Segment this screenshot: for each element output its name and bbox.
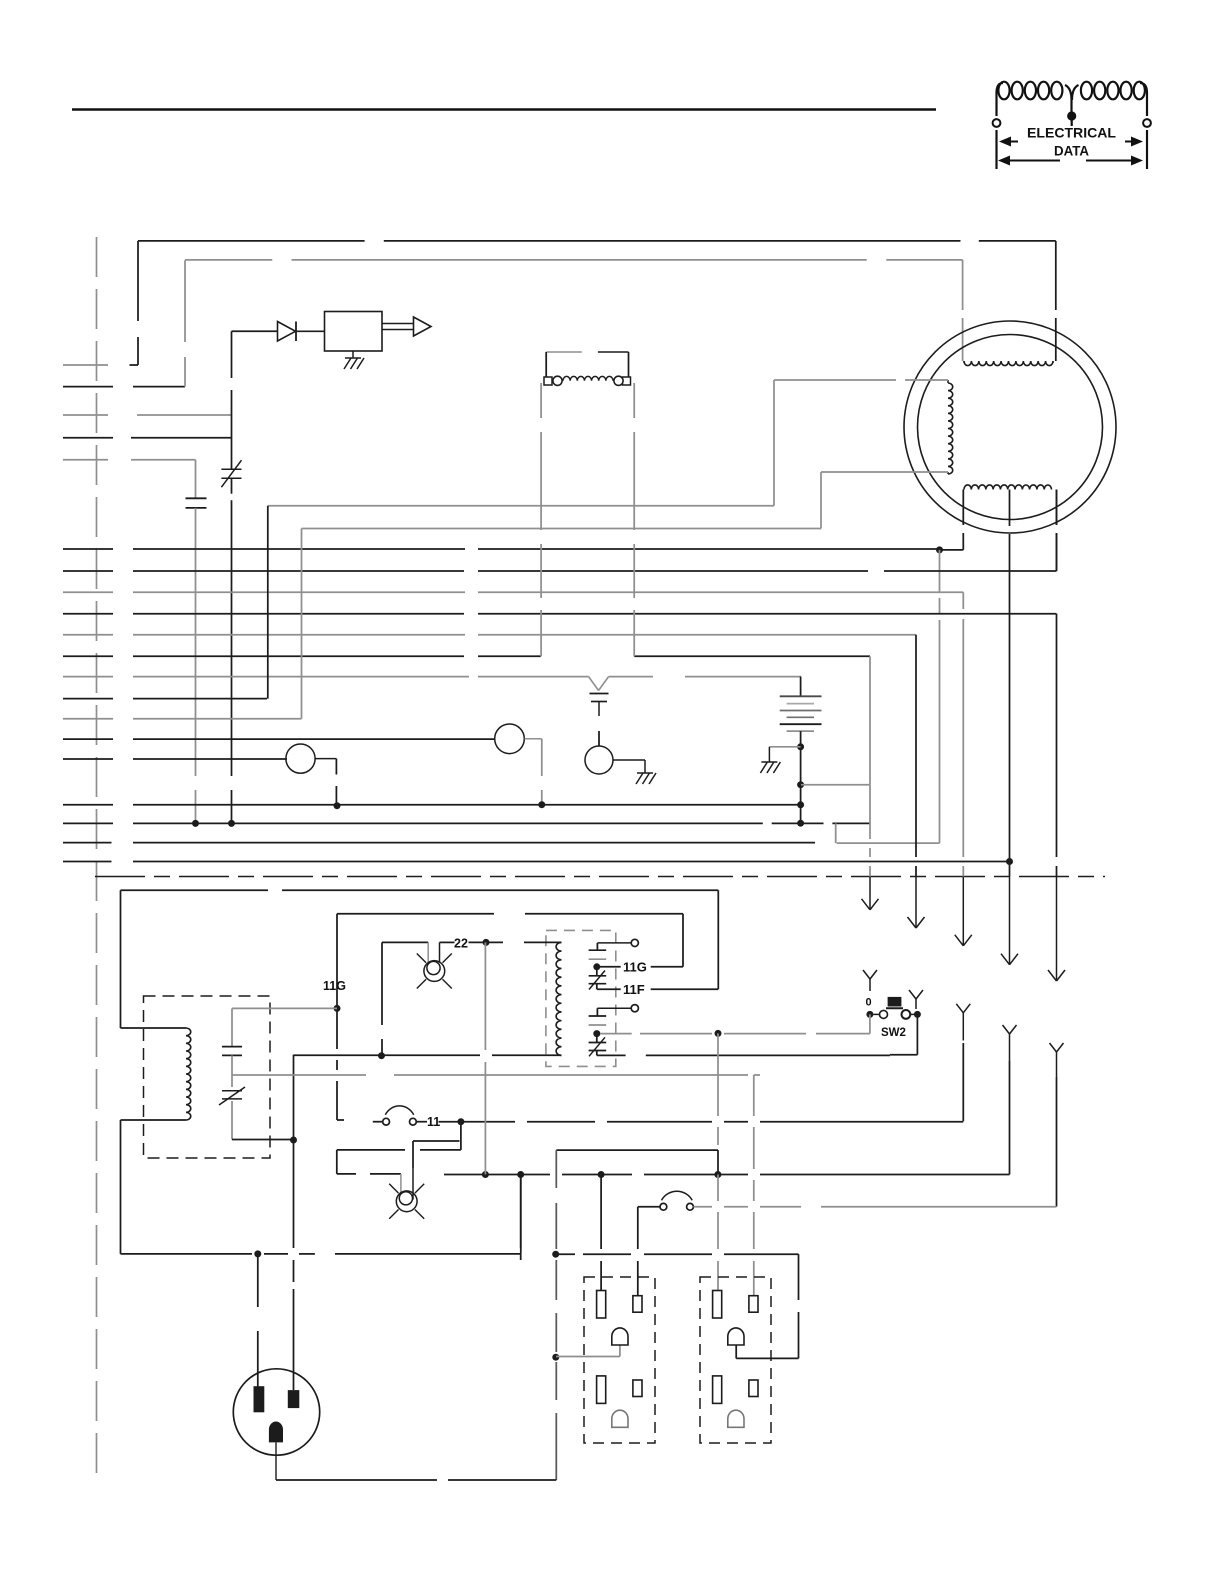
jog 461-337 [337,1122,461,1174]
capacitor C1 [186,460,207,508]
label 11 [427,1115,440,1129]
junction dot 231/823 [228,820,235,827]
wire y459.8 [131,459,196,461]
col4 connector socket Y [1003,1025,1017,1061]
capacitor C2 [222,1008,242,1055]
col3 feed x963.3 [962,592,964,876]
wire pin B to x337 [315,759,336,806]
ground at pin C [636,773,656,784]
col5 connector arrow [1048,877,1065,982]
bus wire y676.6 with probe dip [133,677,801,691]
bus stub y842.6 [63,842,112,844]
wire stub y459.8 [63,459,108,461]
col4 connector arrow [1001,877,1018,965]
bus wire y549 [133,548,963,551]
bus wire y823.4 [133,822,870,824]
gen left coil top lead y380 [774,380,948,383]
SW2 left wire to relay [869,1014,871,1033]
col3 wire to switch 11 line [962,1043,964,1121]
bus wire y861.5 [133,861,1010,863]
bus stub y823.4 [63,822,113,824]
gen top winding [964,361,1053,366]
vertical 11G x683 [682,914,684,967]
col4 feed x1009.5 [1009,858,1011,877]
wire 11 to dot [439,1121,461,1123]
junction dot 293/1140 [290,1137,297,1144]
11G wire y1008.4 [232,1007,337,1009]
pin circle C [585,746,613,774]
junction dot 258/1254 [254,1250,261,1257]
variable marker on C2 branch [219,1055,245,1139]
output arrow [382,317,431,336]
bus wire y592.3 [133,591,963,593]
svg-text:11G: 11G [623,960,647,975]
junction dot K2 out [593,1030,600,1037]
svg-text:11G: 11G [323,979,346,993]
branch to lamp right lead [413,1141,460,1168]
label 11F [623,982,645,997]
junction dot 486/942 [483,939,490,946]
junction dot 196/823 [192,820,199,827]
junction dot 556/1357 [552,1354,559,1361]
wire y1174 main [444,1174,1010,1176]
lamp L2 leads [401,1168,413,1200]
vertical 11F x718.3 [717,890,719,989]
bus stub y739.1 [63,738,113,740]
gen left (excitation) winding [948,383,953,474]
bus stub y634.8 [63,634,113,636]
lamp 22 leads [428,942,439,962]
wire 11F out [597,988,719,990]
plug ground pin [269,1422,283,1443]
wire battery to col1 y784.7 [801,784,870,786]
vertical x485.4 [484,942,486,1174]
plug circle [233,1369,319,1455]
SW2 right contact [902,1010,915,1019]
junction dot 520/1174 [517,1171,524,1178]
col5 connector socket Y [1050,1043,1064,1077]
col1 connector socket Y [863,970,877,991]
bus stub y804.8 [63,804,113,806]
vertical wire x138 [137,241,139,365]
bus wire y698.6 [133,698,267,700]
ELECTRICAL DATA coil badge [993,82,1151,169]
svg-text:11: 11 [427,1115,440,1129]
junction dot 1010/861 [1006,858,1013,865]
junction dot 718/1174 [714,1171,721,1178]
ignition module box [325,312,383,352]
label SW2 [881,1027,906,1039]
bus wire y656.3 [133,655,870,657]
svg-text:22: 22 [454,937,468,951]
vertical x601.1 to receptacle1 [600,1175,602,1291]
transformer T1 primary coil [186,1028,191,1120]
svg-text:SW2: SW2 [881,1027,906,1039]
plug right blade [288,1390,300,1408]
lamp L2 [389,1184,424,1219]
gen bottom coil right lead [1056,490,1058,572]
lamp 22 [417,954,452,989]
transformer dashed box [144,996,271,1158]
bus wire y571 [133,570,1057,572]
pin circle A [495,724,525,754]
wire y942.4 (coil top feed) [382,941,562,943]
wire y1150.1 [556,1150,718,1174]
bus stub y549 [63,548,113,550]
col1 connector arrow [862,877,879,910]
bus wire y718.7 [133,718,302,720]
col2 connector socket Y [909,990,923,1009]
bottom ground bus y1480 [276,1479,556,1481]
bus wire y634.8 [133,634,916,636]
label 11G right [623,960,647,975]
relay K2 coil [556,942,561,1055]
section divider dash-dot [95,876,1105,878]
wire y1055.2 left [294,1054,562,1056]
svg-text:ELECTRICAL: ELECTRICAL [1027,125,1116,141]
staircase x821 [820,472,822,529]
wire stub y415 [63,414,108,416]
wire y365 to corner x138 [130,364,139,366]
plug left blade [254,1386,265,1412]
col3 connector arrow [955,877,972,946]
bottom switch contacts [660,1191,693,1210]
vertical x293.5 up [293,1055,295,1140]
plug ground wire [275,1442,277,1480]
wire stub y386.6 [63,386,113,388]
battery ground wire [769,747,800,762]
receptacle R2 duplex [700,1277,771,1443]
gray vertical x556.3 [555,1150,557,1480]
wire pin A to x541.8 [525,739,542,805]
wire recep1 ground [556,1345,620,1357]
gen bottom winding [964,485,1052,490]
contact stack 2 lead [597,1005,638,1016]
switch 11 contacts [383,1106,417,1125]
battery BAT1 [780,677,822,824]
contact stack 2 lower plates [589,1034,607,1057]
plug lead left blade [257,1254,259,1388]
wire y331.3 to diode [232,330,278,332]
bracket x382 [381,942,383,1055]
wire y1174 left segment [337,1173,401,1175]
wire K2 out to SW2 [600,1033,870,1035]
junction dot 461/1121 [457,1118,464,1125]
bus wire y613.8 [133,613,1057,615]
staircase vertical x267.8 [267,506,269,699]
staircase x774 [773,380,775,506]
bus wire B y259.9 [185,259,963,261]
receptacle R1 duplex [584,1277,655,1443]
battery ground [760,762,780,773]
contact stack 1 plates [589,950,607,959]
wire pin C to ground [613,760,646,773]
wire x337 corner to switch [337,1119,344,1121]
col3 connector socket Y [956,1004,970,1041]
wire y1121.7 to col3 [461,1121,963,1123]
col4 wire to y1174 [1009,1061,1011,1175]
pin circle B [286,744,315,773]
bus stub y676.6 [63,676,113,678]
bus stub y861.5 [63,861,112,863]
junction dot 542/805 [538,801,545,808]
col2 connector arrow [908,877,925,929]
vertical x293.5 down to plug [293,1140,295,1390]
capacitor lead x195.5 down [195,508,197,824]
wire stub y437.8 [63,437,113,439]
bus stub y698.6 [63,698,113,700]
bus wire A y240.9 [138,240,1056,242]
contact stack 2 plates [589,1016,607,1025]
SW2 button [886,997,903,1008]
bottom switch right wire y1206.8 [694,1206,1057,1208]
vertical 11G x337 [336,914,338,1120]
label 11G left [323,979,346,993]
staircase y505.7 [268,505,774,507]
wire stub y365 [63,364,108,366]
boundary wire y890.3 (11F net) [121,889,719,891]
bus wire y739.1 [133,738,495,740]
SW2 right terminal dot [914,1011,921,1018]
junction dot 556/1254 [552,1251,559,1258]
vertical wire x185 [184,260,186,386]
col2 feed x916 [915,635,917,877]
wire recep2 ground y1358.4 [736,1345,798,1358]
vertical wire x231.5 (ignition feed) [231,331,233,823]
bus wire y804.8 [133,804,801,806]
crossed-wire marker on x231.5 [221,460,241,487]
bus wire y759 [133,758,287,760]
junction dot 601/1174 [598,1171,605,1178]
wire 11G out [600,966,683,968]
vertical x939.5 jog [939,550,941,843]
bus stub y592.3 [63,591,113,593]
switch 11 leads [373,1121,427,1123]
vertical x520.7 [520,1175,522,1261]
bus stub y571 [63,570,113,572]
wire y1253.9 [121,1253,521,1255]
vertical x1056.5 to gen coil [1056,490,1058,572]
ground under module [344,351,364,369]
page top rule [72,108,936,111]
wire y1139.5 [232,1139,294,1141]
relay K1 coil with terminals [544,352,631,385]
col1 feed x870 [869,656,871,876]
junction dot 718/1033 [715,1030,722,1037]
junction dot 337/805 [334,802,341,809]
bus stub y656.3 [63,655,113,657]
vertical x520.8 up [520,1175,522,1254]
probe lead to pin [598,731,600,747]
contact stack 1 lower plates [589,967,607,990]
bus stub y718.7 [63,718,113,720]
col5 feed x1056.5 [1056,614,1058,877]
gen left coil bottom lead y472 [821,472,948,474]
staircase y528.5 [302,528,822,530]
bottom switch left lead [638,1207,660,1296]
wire y386.6 to corner x185 [133,386,185,388]
battery junction dots [797,743,804,826]
svg-text:0: 0 [866,997,872,1009]
generator stator circles [904,321,1116,533]
junction dot 11G out [593,963,600,970]
vertical x753.8 to receptacle2 [753,1075,755,1296]
wire y1254.2 right [556,1253,799,1255]
connector enclosure right x634.2 [633,383,635,656]
primary left wire [121,890,187,1028]
boundary wire y913.8 (11G net) [337,913,683,915]
gen bottom coil center tap [1009,490,1011,859]
diode CR1 [278,322,325,342]
junction dot 939/550 [936,546,943,553]
primary bottom wire [121,1120,187,1254]
junction dot 381/1055 [378,1052,385,1059]
svg-text:DATA: DATA [1054,143,1089,159]
bus y823 jog to y843.1 [836,823,940,843]
left dashed boundary [96,237,98,1484]
wire y415 [137,414,232,416]
SW2 right wire to y1054 [890,1014,917,1054]
probe contact bars [590,694,609,717]
wire y1075 [232,1074,760,1076]
SW2 left contact [873,1010,887,1018]
SW2 left terminal dot [866,1011,873,1018]
relay K2 dashed box [546,930,616,1066]
vertical x798.5 down [798,1254,800,1358]
junction dot 337/1008 [334,1005,341,1012]
connector enclosure left x541.1 [540,383,542,656]
wire y1055.4 right [597,1054,890,1056]
junction dot 485/1174 [482,1171,489,1178]
staircase vertical x301.5 [301,529,303,719]
gen bottom coil left lead [962,490,964,550]
vertical wire x962.6 gen left top [962,260,964,361]
contact stack 1 lead [597,939,638,950]
svg-text:11F: 11F [623,982,645,997]
wire y437.8 [131,437,232,439]
bus stub y613.8 [63,613,113,615]
vertical wire x1055.8 gen right top [1055,241,1057,361]
label 22 [454,937,468,951]
label 0 [866,997,872,1009]
bus wire y842.6 [133,842,815,844]
col5 wire to y1206 [1056,1077,1058,1207]
vertical x718 (recept2 hot) [717,1033,719,1290]
bus stub y759 [63,758,113,760]
